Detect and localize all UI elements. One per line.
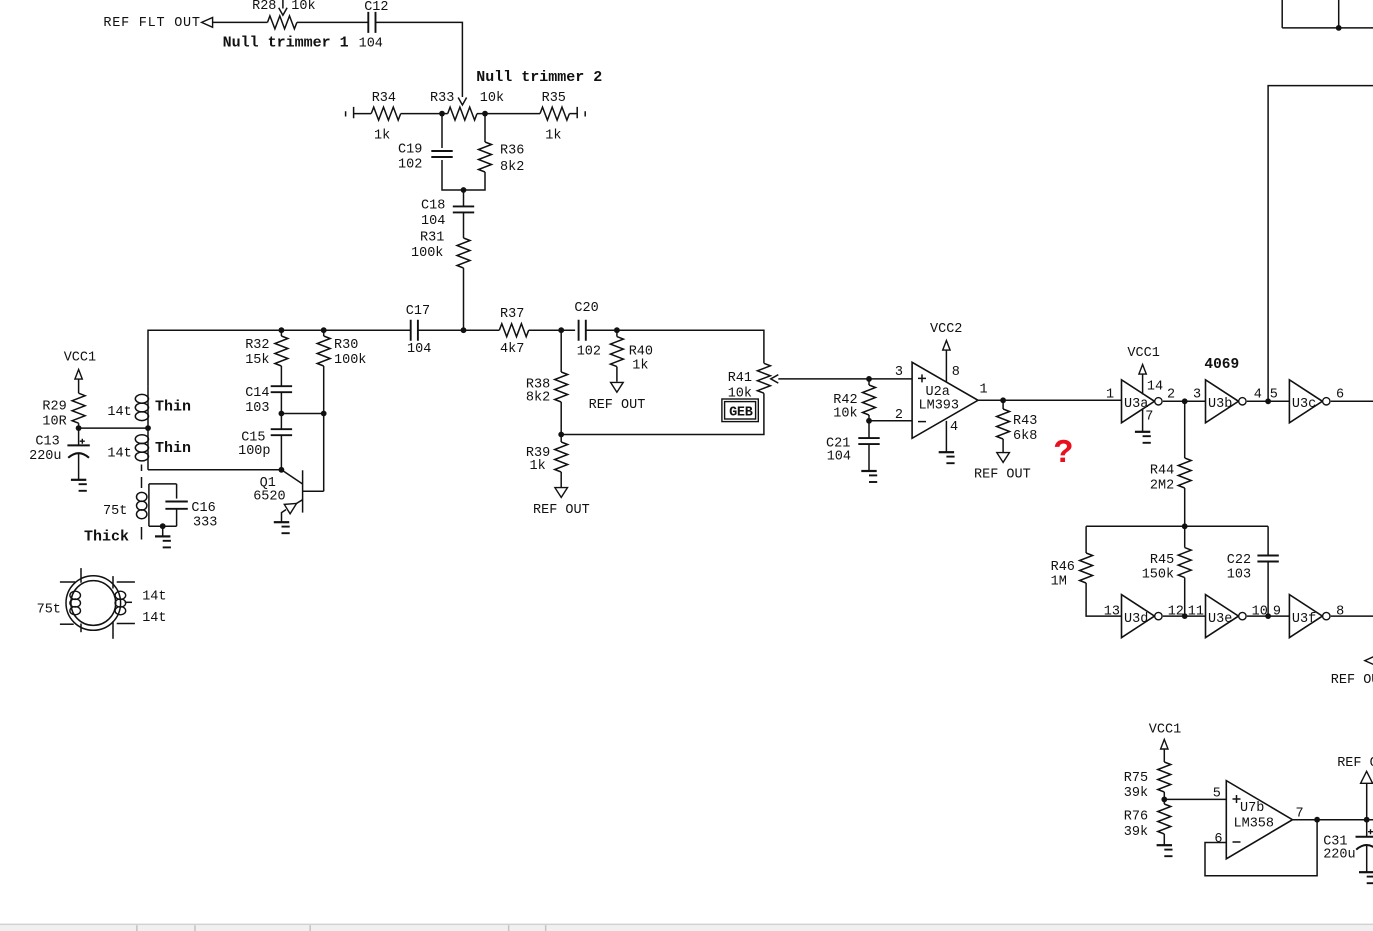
wire <box>148 469 281 471</box>
power VCC1 (U7b) <box>1149 723 1181 762</box>
svg-text:100k: 100k <box>411 246 443 261</box>
svg-text:R29: R29 <box>42 399 66 414</box>
capacitor C16 <box>165 484 217 531</box>
svg-text:R40: R40 <box>629 345 653 360</box>
svg-text:C18: C18 <box>421 198 445 213</box>
svg-text:LM393: LM393 <box>919 398 960 413</box>
svg-text:104: 104 <box>827 450 851 465</box>
svg-text:14t: 14t <box>107 447 131 462</box>
inverter U3b <box>1206 380 1239 423</box>
wire <box>1281 0 1283 28</box>
wire <box>418 329 499 331</box>
wire <box>869 420 912 422</box>
svg-text:U3e: U3e <box>1208 612 1232 627</box>
capacitor C15 <box>238 429 292 459</box>
svg-text:10k: 10k <box>833 407 857 422</box>
svg-text:104: 104 <box>407 342 431 357</box>
resistor R39 <box>526 442 568 474</box>
ground <box>1135 431 1150 433</box>
junction <box>321 411 327 417</box>
connector right <box>577 107 585 118</box>
resistor R38 <box>526 372 568 406</box>
label GEB box <box>722 399 758 422</box>
svg-text:R36: R36 <box>500 144 524 159</box>
resistor R76 <box>1124 799 1171 844</box>
svg-text:220u: 220u <box>1323 848 1355 863</box>
wire <box>586 330 764 363</box>
wire <box>148 330 411 386</box>
svg-text:3: 3 <box>895 365 903 380</box>
svg-text:8k2: 8k2 <box>500 160 524 175</box>
svg-text:Thin: Thin <box>155 399 191 416</box>
wire <box>463 268 465 330</box>
svg-text:39k: 39k <box>1124 786 1148 801</box>
wire <box>463 212 465 238</box>
wire <box>561 393 764 434</box>
svg-text:10R: 10R <box>42 414 66 429</box>
node REF OUT arrow (right edge) <box>1365 656 1373 666</box>
wire <box>484 114 486 142</box>
svg-text:333: 333 <box>193 516 217 531</box>
inverter U3e <box>1206 595 1239 638</box>
ground <box>155 535 170 537</box>
svg-text:C12: C12 <box>364 0 388 15</box>
svg-text:R30: R30 <box>334 338 358 353</box>
svg-text:R31: R31 <box>420 231 444 246</box>
svg-text:220u: 220u <box>29 449 61 464</box>
capacitor C31 <box>1323 820 1373 872</box>
ground <box>1157 844 1172 846</box>
svg-text:VCC1: VCC1 <box>64 350 96 365</box>
wire <box>280 330 282 336</box>
svg-text:4k7: 4k7 <box>500 342 524 357</box>
capacitor C17 <box>406 304 432 357</box>
junction <box>461 327 467 333</box>
svg-text:R37: R37 <box>500 307 524 322</box>
svg-text:75t: 75t <box>103 504 127 519</box>
svg-text:12: 12 <box>1168 605 1184 620</box>
svg-text:Null trimmer 2: Null trimmer 2 <box>476 69 602 86</box>
transformer winding 14t upper (Thin) <box>107 386 191 428</box>
svg-text:15k: 15k <box>245 353 269 368</box>
svg-text:1k: 1k <box>545 128 561 143</box>
svg-text:104: 104 <box>359 37 383 52</box>
wire <box>560 435 562 443</box>
wire <box>560 472 562 488</box>
wire <box>616 367 618 382</box>
svg-text:104: 104 <box>421 214 445 229</box>
wire pin4 stem <box>945 421 947 452</box>
svg-text:7: 7 <box>1145 410 1153 425</box>
power VCC1 <box>64 350 96 393</box>
wire <box>1282 27 1373 29</box>
svg-text:2M2: 2M2 <box>1150 479 1174 494</box>
svg-text:?: ? <box>1054 435 1074 472</box>
wire <box>1338 0 1340 28</box>
wire <box>1331 615 1373 617</box>
transformer toroid drawing <box>37 568 167 639</box>
resistor R33 (trimmer) <box>430 91 504 120</box>
wire <box>281 413 323 415</box>
inverter U3c <box>1289 380 1322 423</box>
svg-text:C14: C14 <box>245 386 269 401</box>
wire <box>280 414 282 430</box>
wire <box>1163 400 1206 402</box>
svg-text:11: 11 <box>1188 605 1204 620</box>
junction <box>558 432 564 438</box>
svg-text:8: 8 <box>1336 605 1344 620</box>
wire <box>560 402 562 435</box>
status bar <box>0 924 1373 931</box>
wire <box>149 484 177 526</box>
svg-text:1: 1 <box>1106 388 1114 403</box>
svg-text:R43: R43 <box>1013 414 1037 429</box>
svg-text:4: 4 <box>1254 388 1262 403</box>
svg-text:8: 8 <box>952 365 960 380</box>
resistor R28 <box>252 0 316 29</box>
svg-text:6k8: 6k8 <box>1013 429 1037 444</box>
svg-text:5: 5 <box>1270 388 1278 403</box>
svg-text:C17: C17 <box>406 304 430 319</box>
resistor R37 <box>499 307 528 357</box>
junction <box>461 187 467 193</box>
wire <box>1247 615 1290 617</box>
ground <box>861 470 876 472</box>
wire <box>280 435 282 470</box>
wire <box>1247 400 1290 402</box>
wire <box>280 392 282 413</box>
svg-text:Null trimmer 1: Null trimmer 1 <box>223 35 349 52</box>
junction <box>279 467 285 473</box>
node REF OUT (R39) <box>533 488 590 518</box>
resistor R32 <box>245 336 288 368</box>
svg-text:VCC2: VCC2 <box>930 322 962 337</box>
junction <box>1182 523 1188 529</box>
ground <box>71 479 86 481</box>
svg-text:C19: C19 <box>398 143 422 158</box>
resistor R41 (trimmer) <box>728 363 771 401</box>
wire <box>442 160 464 190</box>
trimmer wiper arrow R41 <box>771 375 779 383</box>
svg-text:14t: 14t <box>107 405 131 420</box>
junction <box>1000 397 1006 403</box>
svg-text:2: 2 <box>1167 388 1175 403</box>
node REF OUT (U7b) <box>1337 756 1373 820</box>
wire <box>1184 578 1186 617</box>
wire <box>1164 798 1226 800</box>
wire <box>162 526 164 536</box>
svg-text:75t: 75t <box>37 603 61 618</box>
ground <box>274 521 289 523</box>
svg-text:4: 4 <box>950 420 958 435</box>
svg-text:R41: R41 <box>728 371 752 386</box>
inverter U3f <box>1289 595 1322 638</box>
resistor R35 <box>540 91 569 143</box>
trimmer wiper arrow R33 <box>458 98 466 106</box>
wire <box>1293 819 1373 821</box>
svg-text:R35: R35 <box>542 91 566 106</box>
wire <box>1086 525 1268 527</box>
wire <box>569 113 577 115</box>
wire <box>778 378 869 380</box>
svg-text:Thick: Thick <box>84 528 129 545</box>
wire <box>869 378 912 380</box>
svg-text:R76: R76 <box>1124 809 1148 824</box>
wire <box>1086 583 1121 616</box>
svg-text:5: 5 <box>1213 787 1221 802</box>
svg-text:VCC1: VCC1 <box>1149 723 1181 738</box>
resistor R40 <box>610 337 653 374</box>
wire <box>616 330 618 336</box>
wire <box>213 21 268 23</box>
wire <box>1163 615 1206 617</box>
capacitor C20 <box>574 301 601 360</box>
capacitor C13 <box>29 428 90 479</box>
wire <box>78 423 80 428</box>
resistor R31 <box>411 231 470 269</box>
wire <box>1085 526 1087 553</box>
wire <box>560 330 562 372</box>
wire <box>354 113 372 115</box>
svg-text:10k: 10k <box>480 91 504 106</box>
svg-text:LM358: LM358 <box>1234 817 1275 832</box>
wire <box>529 329 575 331</box>
wire <box>376 22 463 97</box>
node REF FLT OUT arrow <box>202 18 213 28</box>
inverter U3a <box>1122 380 1155 423</box>
svg-text:4069: 4069 <box>1204 357 1239 373</box>
junction <box>279 327 285 333</box>
junction <box>482 111 488 117</box>
wire <box>1184 488 1186 526</box>
node REF OUT (R40) <box>589 382 646 412</box>
svg-text:U3d: U3d <box>1124 612 1148 627</box>
svg-text:R46: R46 <box>1051 560 1075 575</box>
svg-text:102: 102 <box>577 344 601 359</box>
resistor R45 <box>1142 548 1192 583</box>
junction <box>279 411 285 417</box>
svg-text:U3b: U3b <box>1208 397 1232 412</box>
junction <box>1314 817 1320 823</box>
resistor R30 <box>317 336 366 368</box>
svg-text:REF OUT: REF OUT <box>974 468 1031 483</box>
svg-text:10k: 10k <box>291 0 315 14</box>
junction <box>76 425 82 431</box>
resistor R44 <box>1150 458 1191 494</box>
svg-text:14t: 14t <box>142 611 166 626</box>
ground <box>939 451 954 453</box>
svg-text:102: 102 <box>398 157 422 172</box>
power VCC1 (U3a) <box>1127 346 1159 395</box>
wire <box>401 113 448 115</box>
svg-text:REF FLT OUT: REF FLT OUT <box>103 16 200 31</box>
wire feedback <box>1205 820 1317 876</box>
wire <box>1184 526 1186 547</box>
svg-text:U3c: U3c <box>1292 397 1316 412</box>
resistor R43 <box>997 400 1038 452</box>
svg-text:R33: R33 <box>430 91 454 106</box>
svg-text:REF OUT: REF OUT <box>1331 673 1373 688</box>
resistor R29 <box>42 393 85 429</box>
junction <box>866 418 872 424</box>
wire <box>1184 401 1186 458</box>
node REF OUT (R43) <box>974 453 1031 483</box>
wire <box>280 366 282 386</box>
capacitor C18 <box>421 198 474 229</box>
resistor R34 <box>371 91 401 143</box>
junction <box>866 376 872 382</box>
junction <box>1182 398 1188 404</box>
svg-text:R42: R42 <box>833 393 857 408</box>
capacitor C14 <box>245 386 292 416</box>
svg-text:REF OUT: REF OUT <box>1337 756 1373 771</box>
wire <box>868 379 870 421</box>
wire <box>463 190 465 206</box>
svg-text:6: 6 <box>1214 832 1222 847</box>
svg-text:1k: 1k <box>530 459 546 474</box>
resistor R36 <box>479 142 525 175</box>
svg-text:8k2: 8k2 <box>526 391 550 406</box>
svg-text:1k: 1k <box>632 359 648 374</box>
junction <box>1265 398 1271 404</box>
svg-text:10: 10 <box>1252 605 1268 620</box>
svg-text:150k: 150k <box>1142 568 1174 583</box>
transformer winding 14t lower (Thin) <box>107 428 191 470</box>
wire <box>297 21 369 23</box>
junction <box>1336 25 1342 31</box>
svg-text:C22: C22 <box>1227 553 1251 568</box>
junction <box>614 327 620 333</box>
svg-text:103: 103 <box>1227 568 1251 583</box>
op-amp U2a <box>895 362 988 438</box>
svg-text:R28: R28 <box>252 0 276 14</box>
wire <box>79 427 148 429</box>
ground <box>1359 871 1373 873</box>
wire <box>441 114 443 148</box>
junction <box>145 425 151 431</box>
wire <box>323 330 325 336</box>
junction <box>1265 613 1271 619</box>
svg-text:1k: 1k <box>374 128 390 143</box>
wire <box>1268 86 1373 402</box>
wire <box>464 172 486 190</box>
wire <box>1331 400 1373 402</box>
svg-text:REF OUT: REF OUT <box>589 398 646 413</box>
transformer winding 75t (Thick) <box>84 465 147 546</box>
resistor R46 <box>1051 553 1093 590</box>
inverter U3d <box>1122 595 1155 638</box>
svg-text:100k: 100k <box>334 353 366 368</box>
power VCC2 <box>930 322 962 382</box>
svg-text:9: 9 <box>1273 605 1281 620</box>
svg-text:C20: C20 <box>574 301 598 316</box>
svg-text:GEB: GEB <box>729 406 753 421</box>
svg-text:VCC1: VCC1 <box>1127 346 1159 361</box>
junction <box>160 523 166 529</box>
wire pin7 stem <box>1142 409 1144 431</box>
resistor R42 <box>833 385 875 422</box>
junction <box>1182 613 1188 619</box>
svg-text:C16: C16 <box>191 501 215 516</box>
svg-text:U3f: U3f <box>1292 612 1316 627</box>
transistor Q1 <box>253 470 324 522</box>
svg-text:2: 2 <box>895 408 903 423</box>
junction <box>1161 797 1167 803</box>
svg-text:14t: 14t <box>142 590 166 605</box>
wire <box>1163 792 1165 799</box>
resistor R75 <box>1124 762 1171 801</box>
svg-text:100p: 100p <box>238 444 270 459</box>
svg-text:13: 13 <box>1104 605 1120 620</box>
capacitor C19 <box>398 143 453 173</box>
junction <box>321 327 327 333</box>
capacitor C22 <box>1227 526 1279 616</box>
connector left <box>346 107 354 118</box>
junction <box>558 327 564 333</box>
wire <box>477 113 540 115</box>
svg-text:1M: 1M <box>1051 575 1067 590</box>
svg-text:3: 3 <box>1193 388 1201 403</box>
svg-text:REF OUT: REF OUT <box>533 503 590 518</box>
svg-text:R45: R45 <box>1150 553 1174 568</box>
capacitor C21 <box>826 421 880 471</box>
svg-text:103: 103 <box>245 401 269 416</box>
svg-text:R44: R44 <box>1150 464 1174 479</box>
svg-text:6520: 6520 <box>253 490 285 505</box>
svg-text:1: 1 <box>980 382 988 397</box>
junction <box>1364 817 1370 823</box>
capacitor C12 <box>359 0 389 52</box>
svg-text:R32: R32 <box>245 338 269 353</box>
svg-text:Thin: Thin <box>155 440 191 457</box>
svg-text:R75: R75 <box>1124 771 1148 786</box>
op-amp U7b <box>1226 781 1292 859</box>
wire <box>978 399 1122 401</box>
svg-text:U7b: U7b <box>1240 801 1264 816</box>
svg-text:R34: R34 <box>372 91 396 106</box>
svg-text:14: 14 <box>1147 380 1163 395</box>
svg-text:6: 6 <box>1336 388 1344 403</box>
wire <box>323 366 325 491</box>
junction <box>439 111 445 117</box>
svg-text:C13: C13 <box>35 434 59 449</box>
svg-text:39k: 39k <box>1124 825 1148 840</box>
